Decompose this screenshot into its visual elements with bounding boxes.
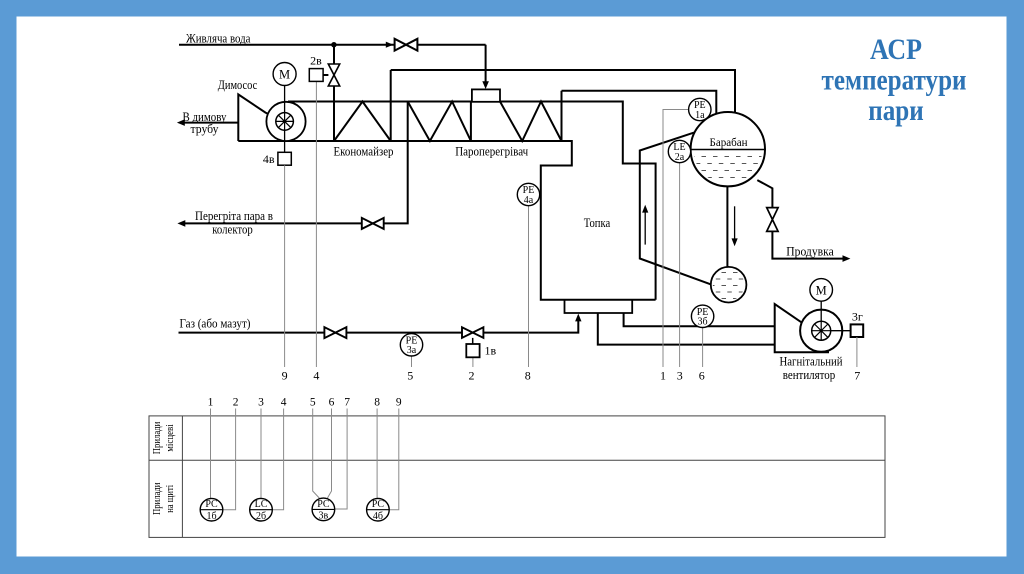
flue duct top + furnace right wall [288, 102, 656, 300]
exhauster housing [238, 94, 270, 141]
fan scroll circle [800, 310, 842, 352]
flue duct bottom + furnace left wall + furnace bottom [238, 141, 655, 300]
svg-text:1: 1 [208, 397, 214, 409]
svg-text:7: 7 [854, 369, 860, 383]
svg-text:місцеві: місцеві [165, 424, 176, 452]
row label: Прилади місцеві [152, 421, 176, 454]
svg-text:М: М [816, 284, 827, 298]
svg-text:2а: 2а [675, 152, 685, 163]
signal 8 from PE4a [528, 206, 530, 367]
wire 6 [327, 409, 331, 499]
air pipe lower [598, 313, 775, 345]
fan outlet shaft [821, 330, 850, 332]
svg-text:Нагнітальний: Нагнітальний [780, 355, 843, 369]
svg-text:5: 5 [407, 369, 413, 383]
motor M2 [810, 279, 833, 302]
wire 7 [335, 409, 347, 510]
attemperator box [472, 89, 500, 101]
arrow into attemperator [482, 81, 489, 89]
valve 2в (vertical) [328, 64, 339, 86]
motor link rod 2 [820, 301, 822, 331]
signal tails (grey) [285, 81, 857, 367]
instrument PE3a [400, 334, 422, 357]
smoke exhauster outlet pipe [181, 122, 238, 124]
riser flow arrow [642, 205, 648, 245]
wire 2 [224, 409, 236, 510]
superheater coil B [500, 91, 562, 141]
riser channel inner wall [640, 133, 711, 285]
exhauster impeller [276, 113, 294, 131]
svg-text:9: 9 [396, 397, 402, 409]
svg-text:5: 5 [310, 397, 316, 409]
wire 4 [273, 409, 284, 510]
svg-text:РС: РС [317, 499, 330, 510]
blowdown pipe lower [772, 231, 845, 258]
svg-text:1: 1 [660, 369, 666, 383]
svg-text:3: 3 [258, 397, 264, 409]
svg-text:на щиті: на щиті [165, 485, 176, 513]
superheater coil A [408, 102, 471, 142]
fan housing [775, 304, 829, 352]
motor M1 [273, 63, 296, 86]
signal 9 from 4в [284, 165, 286, 367]
wire 5 [313, 409, 320, 499]
svg-text:3: 3 [677, 369, 683, 383]
svg-text:пари: пари [868, 95, 924, 127]
svg-text:LC: LC [255, 499, 268, 510]
signal 4 from 2в [315, 81, 317, 367]
lower drum [711, 267, 747, 303]
svg-text:3а: 3а [407, 345, 417, 356]
wire 1 [210, 409, 212, 499]
instrument PC4б [367, 498, 390, 522]
svg-text:9: 9 [282, 369, 288, 383]
svg-text:Прилади: Прилади [152, 482, 163, 515]
signal 3 from LE2a [679, 163, 681, 367]
svg-text:Димосос: Димосос [218, 78, 258, 92]
downcomer drum to lower drum [726, 186, 728, 267]
svg-text:4в: 4в [263, 152, 275, 166]
row label: Прилади на щиті [152, 482, 176, 515]
drum feed pipe (top) [391, 70, 735, 114]
economizer right edge pipe [390, 70, 392, 141]
instrument LE2a [668, 140, 690, 163]
svg-text:М: М [279, 68, 290, 82]
flow arrow on feed water line [386, 42, 394, 48]
wire 8 [376, 409, 378, 499]
svg-text:вентилятор: вентилятор [783, 368, 836, 382]
instrument PE1a [689, 98, 711, 121]
svg-text:3в: 3в [319, 511, 329, 522]
svg-text:Продувка: Продувка [786, 245, 834, 259]
svg-text:2: 2 [233, 397, 239, 409]
svg-text:Барабан: Барабан [710, 137, 748, 149]
svg-text:4: 4 [313, 369, 319, 383]
svg-text:2: 2 [469, 369, 475, 383]
svg-text:1в: 1в [485, 343, 497, 357]
svg-text:2в: 2в [310, 54, 322, 68]
svg-text:температури: температури [822, 65, 967, 97]
economizer coil [334, 102, 391, 142]
signal 1 from PE1a [663, 110, 689, 368]
instrument LC2б [250, 498, 273, 522]
junction dot feed water [331, 42, 336, 47]
signal 7 from 3г [856, 337, 858, 367]
burner box [565, 300, 633, 313]
instrument PE3б [691, 305, 713, 328]
wire 9 [390, 409, 399, 510]
svg-text:6: 6 [329, 397, 335, 409]
drum [691, 112, 765, 186]
svg-text:1б: 1б [206, 511, 216, 522]
instrument PC3в [312, 498, 335, 522]
downcomer flow arrow [732, 206, 738, 246]
svg-text:3г: 3г [852, 309, 863, 323]
valve feed water [395, 39, 418, 51]
svg-text:4: 4 [281, 397, 287, 409]
fan impeller [812, 321, 831, 340]
svg-text:7: 7 [344, 397, 350, 409]
svg-text:8: 8 [525, 369, 531, 383]
arrow to chimney [177, 119, 185, 126]
motor link rod [284, 86, 286, 153]
svg-text:АСР: АСР [870, 34, 922, 66]
svg-text:Живляча вода: Живляча вода [186, 32, 251, 46]
air pipe upper [624, 313, 775, 326]
svg-text:1а: 1а [695, 110, 705, 121]
svg-text:РС: РС [372, 499, 385, 510]
signal 6 from PE3б [702, 328, 704, 368]
actuator link 2в square to valve [309, 54, 328, 82]
column numbers [208, 397, 402, 409]
svg-text:Прилади: Прилади [152, 421, 163, 454]
svg-text:Економайзер: Економайзер [334, 145, 394, 159]
superheated steam pipe [181, 102, 408, 224]
arrow superheated steam to collector [177, 220, 185, 227]
blowdown pipe upper [757, 180, 772, 208]
instrument PE4a [517, 183, 539, 206]
svg-text:колектор: колектор [212, 222, 253, 236]
lower drum hatch [710, 273, 748, 299]
instrument PC1б [200, 498, 223, 522]
actuator 3г [851, 324, 864, 337]
svg-text:Перегріта пара в: Перегріта пара в [195, 209, 273, 223]
feed water pipe [179, 44, 486, 46]
valve gas 1 [324, 327, 346, 338]
drum water hatch [690, 157, 766, 178]
signal 5 from PE3a [411, 356, 413, 367]
valve blowdown (vertical) [767, 208, 778, 232]
signal 2 from 1в [472, 357, 474, 367]
title АСР температури пари [822, 34, 967, 127]
arrow blowdown out [843, 255, 851, 262]
svg-text:Газ (або мазут): Газ (або мазут) [180, 317, 251, 331]
svg-text:трубу: трубу [191, 122, 220, 136]
svg-text:6: 6 [699, 369, 705, 383]
svg-text:3б: 3б [698, 317, 708, 328]
svg-text:2б: 2б [256, 511, 266, 522]
actuator 4в [278, 152, 291, 165]
actuator 1в [466, 338, 496, 357]
2в branch pipe / economizer left edge [333, 45, 335, 141]
superheater outlet pipe to drum [562, 91, 717, 115]
arrow gas into burner [575, 314, 581, 322]
table frame [149, 416, 885, 538]
valve gas 2 (1в) [462, 327, 483, 338]
svg-text:4б: 4б [373, 511, 383, 522]
svg-text:4а: 4а [524, 195, 534, 206]
valve superheated steam [362, 218, 384, 229]
gas pipe [179, 319, 579, 333]
svg-text:Топка: Топка [584, 216, 611, 230]
svg-text:Пароперегрівач: Пароперегрівач [455, 145, 528, 159]
table signal drops [211, 409, 399, 510]
drum water level [691, 149, 765, 151]
feed water drop to attemperator [485, 45, 487, 84]
exhauster scroll circle [266, 102, 305, 141]
svg-text:8: 8 [374, 397, 380, 409]
svg-text:РС: РС [205, 499, 218, 510]
wire 3 [260, 409, 262, 499]
